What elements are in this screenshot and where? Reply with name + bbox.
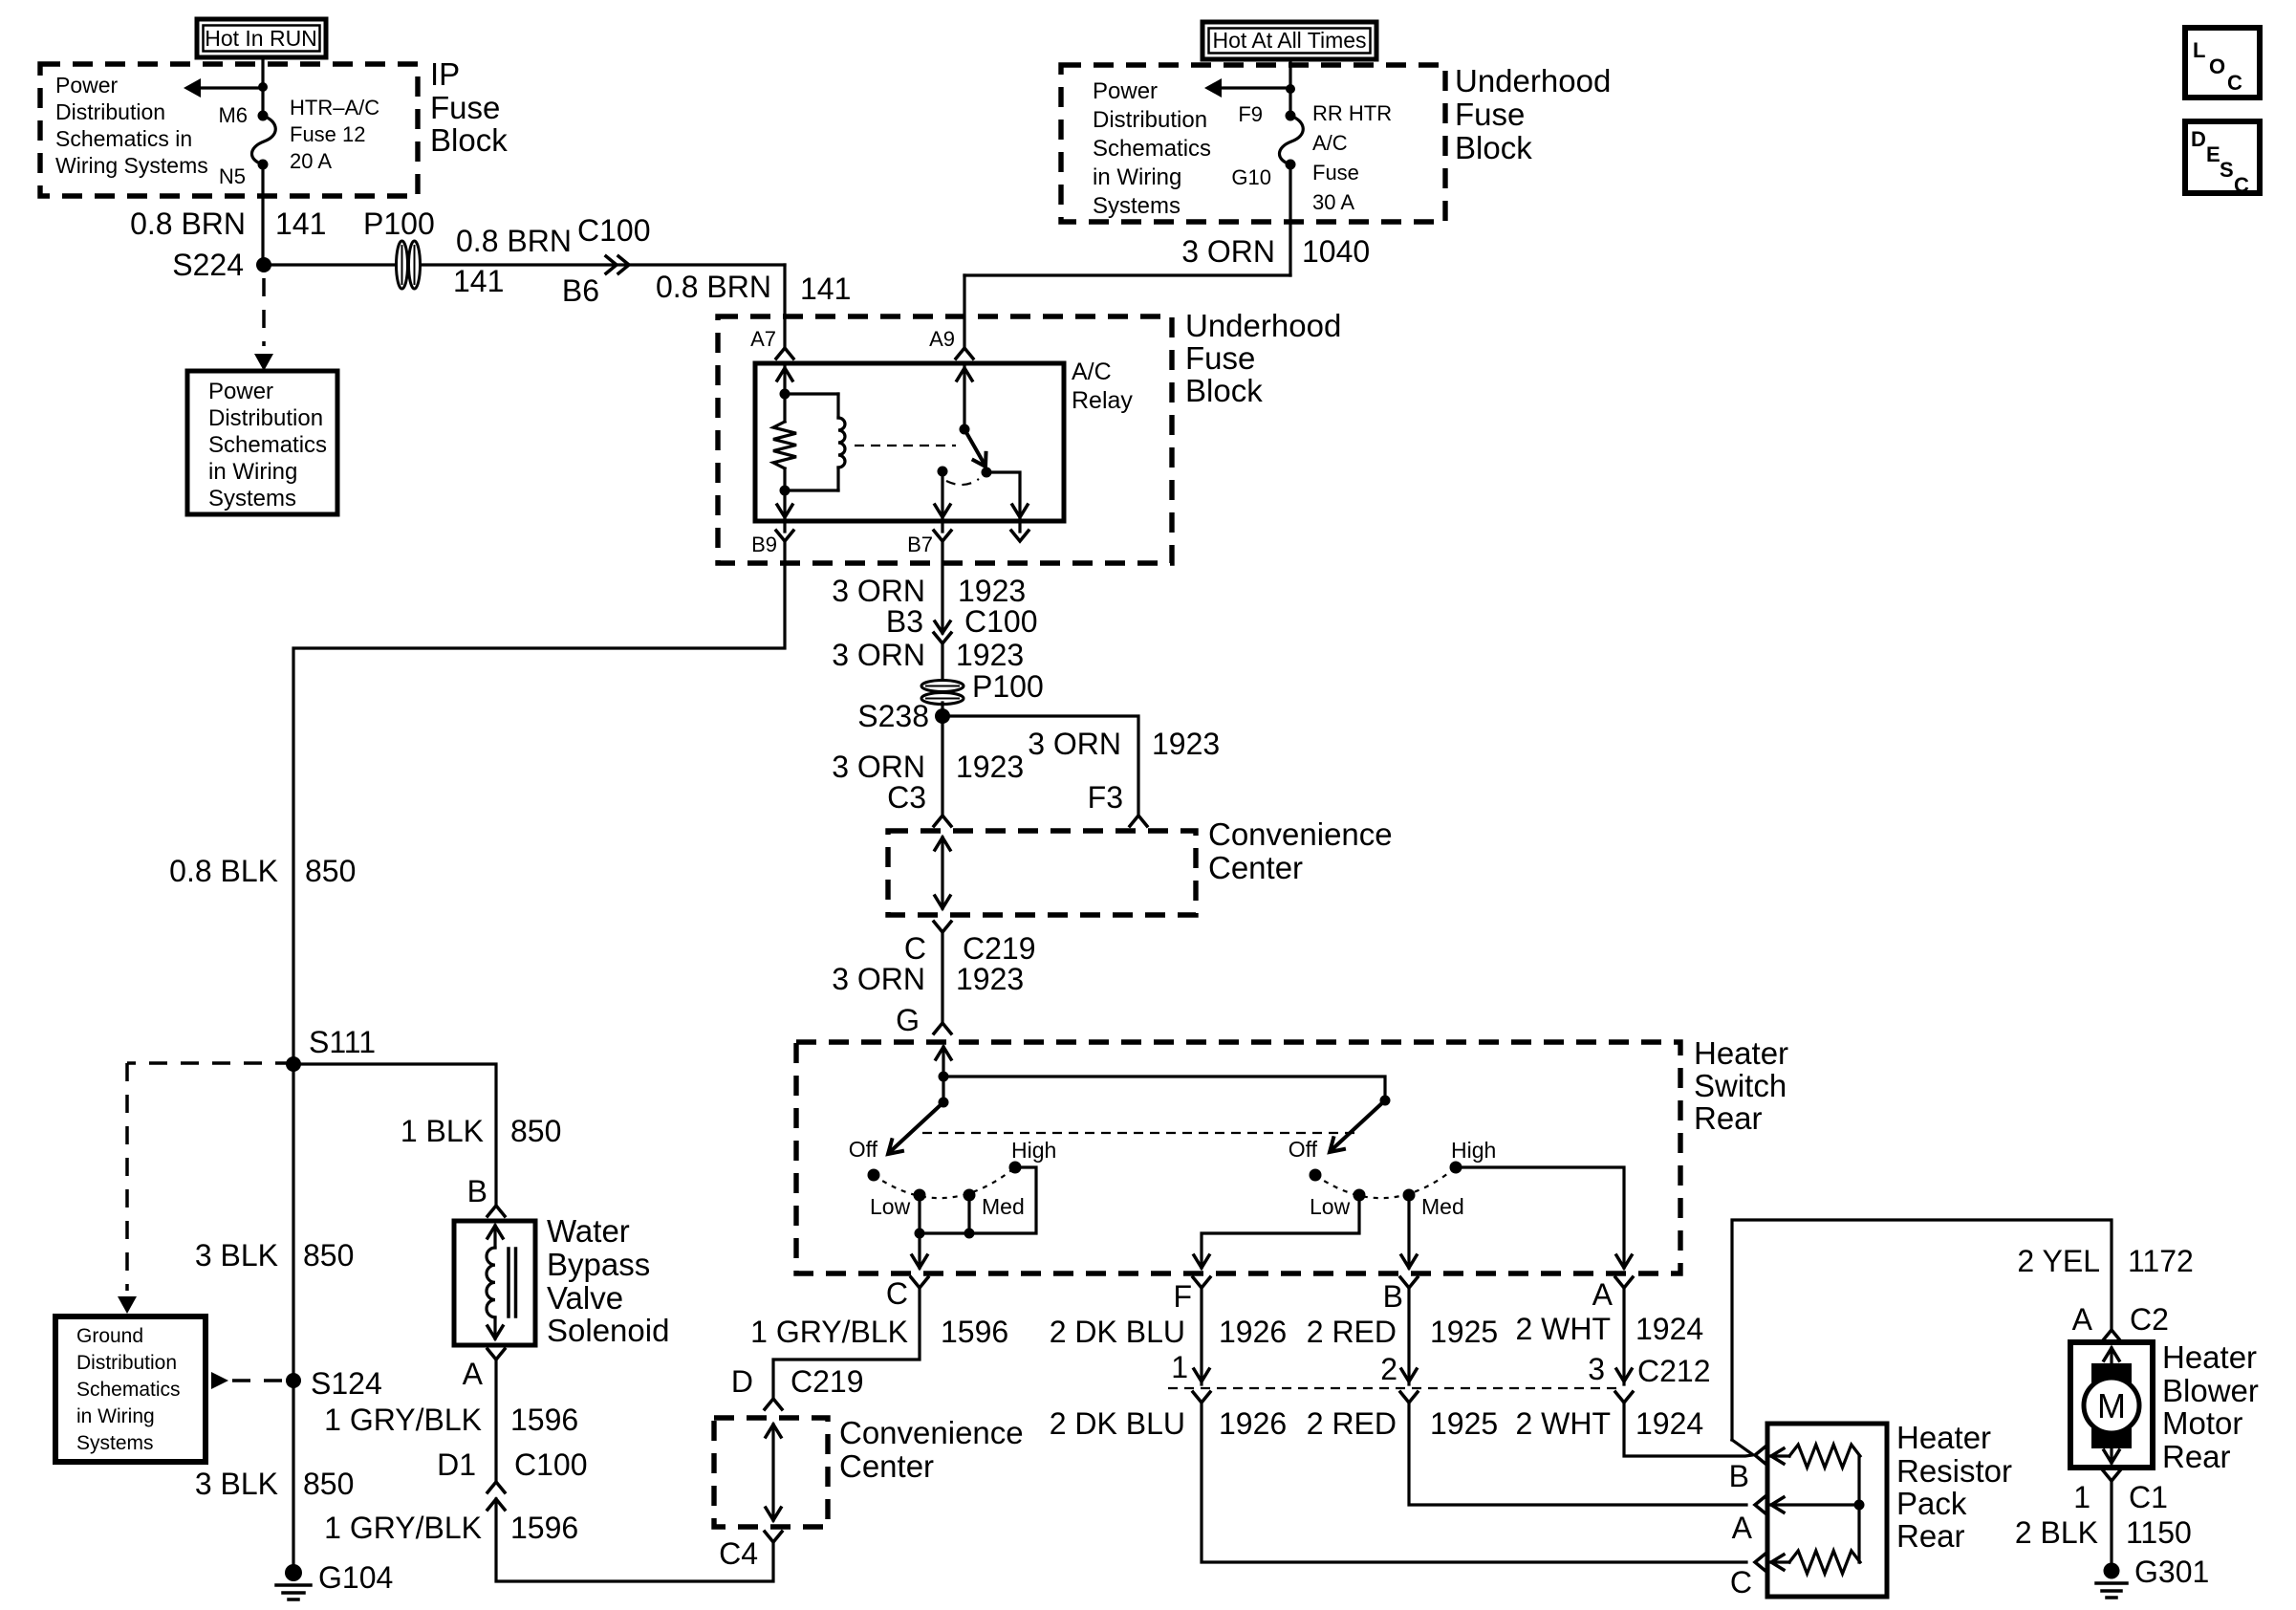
svg-text:1925: 1925 (1430, 1315, 1498, 1349)
right switch Low to pin F (1194, 1195, 1359, 1268)
pin label G10 (1231, 165, 1271, 189)
svg-text:1596: 1596 (510, 1511, 578, 1545)
svg-text:C100: C100 (514, 1447, 588, 1482)
wire label 3 ORN 1923 (above C100) (832, 574, 1026, 608)
svg-text:1172: 1172 (2128, 1244, 2194, 1278)
svg-text:1596: 1596 (510, 1403, 578, 1437)
relay coil (internal) (785, 394, 845, 490)
svg-text:A: A (1592, 1277, 1614, 1312)
convenience center internal wire (935, 838, 950, 908)
pin label F9 (1238, 102, 1263, 126)
connector chevron at A9 (956, 348, 973, 359)
left contact Med (964, 1189, 1025, 1220)
svg-text:3 ORN: 3 ORN (1181, 234, 1275, 269)
reference text: Power Distribution Schematics in Wiring Systems (underhood) (1093, 78, 1211, 219)
wire label 3 ORN 1040 (1181, 234, 1370, 269)
svg-text:3 BLK: 3 BLK (195, 1238, 278, 1273)
wire: branch to power distribution (left arrow) (184, 78, 263, 98)
wire label 0.8 BRN 141 (IP side) (453, 224, 572, 298)
right contact Med (1403, 1189, 1464, 1220)
svg-text:Center: Center (839, 1448, 934, 1484)
svg-text:1923: 1923 (956, 638, 1024, 672)
svg-text:S124: S124 (311, 1366, 382, 1401)
svg-text:Rear: Rear (1896, 1518, 1965, 1554)
heater switch pin G internal wire (936, 1047, 951, 1102)
wire label 3 ORN 1923 (below C100) (832, 638, 1024, 672)
svg-text:in Wiring: in Wiring (208, 459, 297, 485)
svg-text:Rear: Rear (1694, 1100, 1763, 1136)
svg-text:Resistor: Resistor (1896, 1453, 2012, 1489)
svg-text:1 GRY/BLK: 1 GRY/BLK (324, 1511, 482, 1545)
svg-text:Schematics in: Schematics in (55, 126, 192, 151)
wire: P100 to C100 connector B6 (421, 263, 785, 266)
svg-text:Pack: Pack (1896, 1486, 1967, 1521)
svg-text:A: A (463, 1357, 484, 1391)
wire: C4 down to solenoid return (496, 1499, 773, 1581)
svg-text:P100: P100 (363, 207, 435, 241)
wire: Hot At All Times down to fuse (1289, 59, 1291, 116)
relay pin B9 internal wire (777, 490, 792, 517)
LOC reference box (2185, 28, 2260, 98)
label: Underhood Fuse Block (top) (1455, 63, 1611, 165)
wire label 0.8 BRN 141 (engine side) (656, 270, 851, 306)
wire label 1 GRY/BLK 1596 (IP side) (324, 1511, 578, 1545)
svg-text:141: 141 (800, 272, 851, 306)
svg-text:0.8 BRN: 0.8 BRN (656, 270, 771, 304)
svg-text:Underhood: Underhood (1185, 308, 1341, 343)
svg-text:Valve: Valve (547, 1280, 623, 1316)
svg-text:2 RED: 2 RED (1307, 1315, 1397, 1349)
svg-text:G104: G104 (318, 1560, 393, 1595)
connector chevron at C1 (2103, 1470, 2120, 1481)
wire: B9 down and across to left column (293, 541, 785, 1064)
svg-text:1: 1 (1171, 1350, 1188, 1384)
wire: C100 to P100 (941, 643, 943, 681)
wire: solenoid A to C100 D1 (494, 1360, 497, 1482)
wire: F to C212 pin 1 (1194, 1288, 1209, 1384)
left switch output bus (915, 1167, 1037, 1239)
svg-text:1923: 1923 (956, 962, 1024, 996)
svg-text:2 BLK: 2 BLK (2015, 1515, 2098, 1550)
pin label F3 (1088, 780, 1123, 815)
svg-text:C219: C219 (791, 1364, 864, 1399)
svg-text:Distribution: Distribution (76, 1352, 177, 1374)
svg-text:C3: C3 (887, 780, 926, 815)
fuse RR HTR A/C Fuse 30 A (element) (1279, 111, 1303, 170)
connector chevron at F out (1193, 1277, 1210, 1288)
wire label row 2 DK BLU 1926 / 2 RED 1925 / 2 WHT 1924 (1050, 1312, 1703, 1349)
svg-text:850: 850 (510, 1114, 561, 1148)
label: Heater Resistor Pack Rear (1896, 1420, 2012, 1554)
svg-text:F9: F9 (1238, 102, 1263, 126)
connector chevron at B out (1400, 1277, 1418, 1288)
pin label B (solenoid) (467, 1174, 487, 1208)
svg-text:IP: IP (430, 56, 460, 92)
Heater Blower Motor Rear box (2070, 1342, 2153, 1468)
svg-text:High: High (1011, 1138, 1056, 1163)
wire: fuse G10 down out of block (1289, 164, 1291, 275)
label: Heater Switch Rear (1694, 1035, 1788, 1136)
resistor R1 (high speed) (1789, 1445, 1860, 1468)
svg-text:S: S (2220, 158, 2234, 182)
svg-text:3 ORN: 3 ORN (832, 638, 925, 672)
svg-text:A/C: A/C (1312, 131, 1348, 155)
resistor pack terminal B (1729, 1447, 1765, 1493)
left switch Med drop (967, 1195, 970, 1233)
svg-text:RR HTR: RR HTR (1312, 101, 1392, 125)
svg-text:B: B (467, 1174, 487, 1208)
Ground Distribution box (55, 1316, 206, 1462)
Heater Switch Rear dashed box (796, 1042, 1680, 1273)
label: A/C Relay (1072, 359, 1133, 414)
svg-text:C219: C219 (963, 931, 1036, 966)
svg-text:Power: Power (208, 379, 273, 404)
svg-text:2: 2 (1380, 1352, 1397, 1386)
svg-text:1924: 1924 (1635, 1312, 1703, 1346)
right contact dashed arc (1315, 1167, 1456, 1198)
A/C relay box (755, 363, 1064, 521)
wire: S224 to P100 (264, 263, 397, 266)
svg-text:Switch: Switch (1694, 1068, 1787, 1103)
svg-text:F3: F3 (1088, 780, 1123, 815)
svg-text:F: F (1173, 1279, 1192, 1314)
right switch High to pin A (1456, 1167, 1632, 1268)
svg-text:Convenience: Convenience (1208, 816, 1393, 852)
inline connector C100 pin B3 (886, 604, 1038, 643)
pin label M6 (218, 103, 248, 127)
junction on battery feed (1286, 84, 1295, 94)
connector chevron at F3 (1130, 816, 1147, 826)
svg-text:Ground: Ground (76, 1325, 143, 1347)
svg-text:C: C (1730, 1565, 1752, 1599)
svg-text:Hot In RUN: Hot In RUN (205, 26, 317, 51)
DESC reference box (2185, 121, 2260, 197)
motor M1 (element) (2084, 1348, 2139, 1463)
svg-text:3 ORN: 3 ORN (832, 962, 925, 996)
svg-text:G301: G301 (2134, 1555, 2209, 1589)
pin label G (896, 1003, 920, 1037)
relay NO contact (982, 468, 992, 478)
left contact dashed arc (874, 1167, 1015, 1198)
Convenience Center dashed box (upper) (888, 831, 1196, 915)
svg-text:Med: Med (1421, 1194, 1464, 1219)
right contact Off (1289, 1137, 1322, 1182)
svg-text:Bypass: Bypass (547, 1247, 650, 1282)
svg-text:N5: N5 (219, 164, 246, 188)
svg-text:O: O (2209, 54, 2225, 78)
label: HTR-A/C Fuse 12 20 A (290, 96, 379, 173)
svg-text:Systems: Systems (76, 1432, 154, 1454)
svg-text:Center: Center (1208, 850, 1303, 885)
node label box: Hot At All Times (1202, 22, 1376, 59)
inline connector C100 pin D1 (437, 1447, 587, 1510)
svg-text:0.8 BRN: 0.8 BRN (130, 207, 246, 241)
connector chevron at solenoid A (487, 1349, 505, 1360)
wire: C219 to heater switch G (941, 932, 943, 1021)
svg-text:Blower: Blower (2162, 1373, 2259, 1408)
svg-text:1: 1 (2073, 1480, 2090, 1514)
heater switch junction to right pole (939, 1072, 949, 1082)
svg-text:Hot At All Times: Hot At All Times (1212, 28, 1366, 53)
wire: A to C212 pin 3 (1616, 1288, 1632, 1384)
svg-text:2 WHT: 2 WHT (1515, 1312, 1611, 1346)
wire: resistor B up and across to blower motor (1732, 1220, 2112, 1440)
svg-text:S111: S111 (309, 1025, 376, 1059)
svg-text:1926: 1926 (1219, 1315, 1287, 1349)
wire label 2 BLK 1150 (2015, 1515, 2192, 1550)
ground G301 (2096, 1555, 2209, 1598)
svg-text:Systems: Systems (1093, 193, 1180, 219)
svg-text:Fuse: Fuse (1312, 161, 1359, 185)
wire label 2 YEL 1172 (2017, 1244, 2193, 1278)
wire label 3 ORN 1923 (to C3) (832, 750, 1024, 784)
svg-text:Block: Block (1185, 373, 1263, 408)
wire: pin 3 down to resistor B (1624, 1403, 1752, 1456)
svg-text:Heater: Heater (1896, 1420, 1991, 1455)
svg-text:3 ORN: 3 ORN (832, 750, 925, 784)
svg-text:in Wiring: in Wiring (1093, 164, 1181, 190)
wire: B6 corner down to relay pin A7 (783, 265, 786, 347)
svg-text:0.8 BRN: 0.8 BRN (456, 224, 572, 258)
svg-text:Off: Off (1289, 1137, 1318, 1162)
wire label row2 2 DK BLU 1926 / 2 RED 1925 / 2 WHT 1924 (1050, 1406, 1703, 1441)
svg-text:L: L (2193, 38, 2205, 62)
svg-text:Rear: Rear (2162, 1439, 2231, 1474)
label: Convenience Center (lower) (839, 1415, 1024, 1484)
pass-through grommet P100 (363, 207, 435, 289)
svg-text:A7: A7 (750, 327, 776, 351)
svg-text:B3: B3 (886, 604, 923, 639)
connector chevron at C2 (2103, 1330, 2120, 1340)
svg-text:Solenoid: Solenoid (547, 1313, 669, 1348)
Underhood Fuse Block dashed box (top) (1061, 65, 1445, 222)
splice S111 (286, 1025, 376, 1072)
connector chevron below relay B7 (934, 521, 951, 541)
svg-text:D: D (731, 1364, 753, 1399)
svg-text:Heater: Heater (1694, 1035, 1788, 1071)
svg-text:C4: C4 (719, 1536, 758, 1571)
wire: fuse N5 down to S224 (261, 164, 264, 265)
svg-text:Low: Low (870, 1194, 911, 1219)
svg-text:Fuse: Fuse (430, 90, 500, 125)
splice S124 (286, 1366, 382, 1401)
svg-text:141: 141 (275, 207, 326, 241)
svg-text:Distribution: Distribution (55, 99, 165, 124)
wire: B to C212 pin 2 (1401, 1288, 1417, 1384)
connector chevron at solenoid B (487, 1206, 505, 1216)
left switch blade (883, 1102, 943, 1160)
left switch Low drop (918, 1195, 921, 1233)
svg-text:2 DK BLU: 2 DK BLU (1050, 1315, 1185, 1349)
svg-text:Schematics: Schematics (208, 432, 327, 458)
svg-text:HTR–A/C: HTR–A/C (290, 96, 379, 120)
svg-text:P100: P100 (972, 669, 1044, 704)
pin label B9 (751, 533, 777, 556)
connector chevron C212 pin 3 (1615, 1392, 1633, 1403)
wire: S238 branch to F3 (942, 716, 1138, 814)
pin label N5 (219, 164, 246, 188)
relay pin A9 internal wire (switch common) (957, 364, 972, 429)
wire label 0.8 BRN 141 (130, 207, 326, 241)
pin label D / C219 (731, 1364, 864, 1399)
svg-text:850: 850 (303, 1238, 354, 1273)
svg-text:1596: 1596 (941, 1315, 1008, 1349)
solenoid L1 (element) (487, 1226, 516, 1338)
relay switch blade (964, 429, 991, 470)
wire: S111 to water bypass valve (293, 1064, 496, 1204)
pass-through grommet P100 (engine harness) (921, 669, 1044, 705)
connector chevron at C4 (765, 1532, 782, 1542)
wire label 3 BLK 850 (lower) (195, 1467, 355, 1501)
svg-text:30 A: 30 A (1312, 190, 1354, 214)
dashed wire: S111 to ground distribution (118, 1063, 293, 1314)
svg-text:Off: Off (849, 1137, 878, 1162)
left contact High (1009, 1138, 1057, 1174)
wire: left column S111 to G104 (292, 1064, 294, 1569)
svg-text:G: G (896, 1003, 920, 1037)
reference text: Power Distribution Schematics in Wiring Systems (55, 73, 208, 178)
svg-text:Distribution: Distribution (208, 405, 323, 431)
connector chevron at A7 (776, 348, 793, 359)
connector chevron C212 pin 1 (1193, 1392, 1210, 1403)
resistor pack internal arrow C (1771, 1555, 1789, 1570)
relay actuation dashed link (855, 445, 956, 446)
wire label 1 GRY/BLK 1596 (engine side) (324, 1403, 578, 1437)
svg-text:1 GRY/BLK: 1 GRY/BLK (750, 1315, 908, 1349)
wire: motor to G301 (2110, 1481, 2112, 1565)
label: Heater Blower Motor Rear (2162, 1339, 2259, 1474)
svg-text:1 GRY/BLK: 1 GRY/BLK (324, 1403, 482, 1437)
pin label B7 (907, 533, 933, 556)
relay resistor (internal) (773, 394, 796, 490)
svg-text:C: C (904, 931, 926, 966)
svg-text:S238: S238 (857, 699, 929, 733)
right contact Low (1310, 1189, 1366, 1220)
connector chevron at A out (1615, 1277, 1633, 1288)
svg-text:M6: M6 (218, 103, 248, 127)
svg-text:3: 3 (1588, 1352, 1605, 1386)
svg-text:Power: Power (1093, 78, 1158, 104)
svg-text:C: C (2227, 71, 2242, 95)
convenience center lower internal wire (766, 1425, 781, 1520)
svg-text:850: 850 (303, 1467, 354, 1501)
relay contact B7 (938, 467, 948, 477)
wire label 0.8 BLK 850 (169, 854, 356, 888)
right switch pivot (1380, 1096, 1391, 1106)
wire label 1 GRY/BLK 1596 (C219) (750, 1315, 1008, 1349)
right switch Med to pin B (1401, 1195, 1417, 1268)
resistor pack internal bus (1854, 1456, 1865, 1562)
svg-text:A/C: A/C (1072, 359, 1112, 385)
relay switch pivot (960, 424, 970, 435)
svg-text:141: 141 (453, 264, 504, 298)
pin label B (1383, 1279, 1403, 1314)
dashed wire: S224 to power distribution (254, 278, 273, 371)
svg-text:1 BLK: 1 BLK (401, 1114, 484, 1148)
svg-text:Heater: Heater (2162, 1339, 2257, 1375)
wire label 1 BLK 850 (401, 1114, 562, 1148)
connector chevron below relay B9 (776, 521, 793, 541)
svg-text:Schematics: Schematics (1093, 136, 1211, 162)
svg-text:A: A (2072, 1302, 2093, 1337)
svg-text:M: M (2097, 1386, 2126, 1425)
svg-text:Fuse 12: Fuse 12 (290, 122, 366, 146)
relay pin B7 internal wire (935, 471, 950, 517)
svg-text:1926: 1926 (1219, 1406, 1287, 1441)
svg-text:B: B (1729, 1459, 1749, 1493)
svg-text:E: E (2206, 142, 2220, 166)
relay contact travel dashed arc (946, 479, 979, 485)
svg-text:1924: 1924 (1635, 1406, 1703, 1441)
svg-text:C2: C2 (2130, 1302, 2169, 1337)
svg-text:Low: Low (1310, 1194, 1351, 1219)
inline connector C100 pin B6 (562, 213, 651, 308)
resistor pack internal arrow A (1771, 1497, 1859, 1512)
svg-text:3 ORN: 3 ORN (1028, 727, 1121, 761)
svg-text:S224: S224 (172, 248, 244, 282)
wire: C to D corner (773, 1288, 920, 1397)
svg-text:C212: C212 (1637, 1354, 1711, 1388)
svg-text:1925: 1925 (1430, 1406, 1498, 1441)
wire: pin 1 down to resistor C (1202, 1403, 1746, 1562)
label: Ground Distribution Schematics in Wiring Systems (76, 1325, 181, 1454)
svg-text:1923: 1923 (1152, 727, 1220, 761)
label: RR HTR A/C Fuse 30 A (1312, 101, 1392, 214)
left contact Low (870, 1189, 926, 1220)
svg-text:Relay: Relay (1072, 387, 1133, 414)
connector chevron below relay spare pin (1011, 521, 1029, 541)
connector chevron C212 pin 2 (1400, 1392, 1418, 1403)
label: Power Distribution Schematics in Wiring Systems (box) (208, 379, 327, 511)
label: Water Bypass Valve Solenoid (547, 1213, 669, 1348)
pin label 1 / C1 (2073, 1480, 2168, 1514)
svg-text:Block: Block (1455, 130, 1532, 165)
label: IP Fuse Block (430, 56, 508, 158)
svg-text:0.8 BLK: 0.8 BLK (169, 854, 278, 888)
relay pin A7 internal wire (777, 364, 792, 394)
resistor pack terminal C (1730, 1554, 1765, 1599)
svg-text:Convenience: Convenience (839, 1415, 1024, 1450)
svg-text:Wiring Systems: Wiring Systems (55, 153, 208, 178)
svg-text:A: A (1732, 1511, 1753, 1545)
splice S238 (857, 699, 950, 733)
svg-text:High: High (1451, 1138, 1496, 1163)
svg-text:2 DK BLU: 2 DK BLU (1050, 1406, 1185, 1441)
node label box: Hot In RUN (197, 19, 326, 57)
pin label F (1173, 1279, 1192, 1314)
svg-text:G10: G10 (1231, 165, 1271, 189)
resistor pack terminal A (1732, 1496, 1765, 1545)
wire label 3 ORN 1923 (branch) (1028, 727, 1220, 761)
svg-text:2 RED: 2 RED (1307, 1406, 1397, 1441)
Heater Resistor Pack Rear box (1767, 1424, 1887, 1597)
resistor R2 (low speed) (1789, 1551, 1860, 1574)
svg-text:C: C (886, 1276, 908, 1311)
wire: across to A9 (964, 273, 1290, 276)
svg-text:Block: Block (430, 122, 508, 158)
svg-text:Fuse: Fuse (1455, 97, 1525, 132)
heater switch feed bus (943, 1077, 1385, 1100)
svg-text:in Wiring: in Wiring (76, 1405, 155, 1427)
switch blades dashed link (922, 1132, 1357, 1134)
svg-text:1150: 1150 (2126, 1515, 2192, 1550)
pin label A (1592, 1277, 1614, 1312)
svg-text:850: 850 (305, 854, 356, 888)
svg-text:2 YEL: 2 YEL (2017, 1244, 2100, 1278)
connector C212 dashed line (1168, 1387, 1620, 1389)
svg-text:Water: Water (547, 1213, 630, 1249)
connector chevron at D (765, 1399, 782, 1409)
